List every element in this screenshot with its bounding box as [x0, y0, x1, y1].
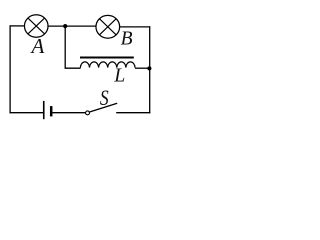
- wire: bottom right from frame to switch: [116, 112, 150, 114]
- node: junction dot on top wire: [63, 24, 67, 28]
- wire: battery to switch: [52, 112, 85, 114]
- svg-text:A: A: [30, 34, 45, 58]
- lamp B: [96, 15, 120, 38]
- wire: bottom left from left frame to battery: [10, 112, 44, 114]
- svg-text:B: B: [121, 29, 133, 50]
- wire: lamp B to right frame: [120, 26, 151, 28]
- wire: right frame vertical: [149, 26, 151, 113]
- wire: horizontal into coil left end: [65, 67, 81, 69]
- wire: vertical from junction down to inductor branch: [64, 26, 66, 68]
- battery long plate: [43, 101, 45, 119]
- inductor L coil: [80, 62, 135, 68]
- wire: left frame vertical: [9, 25, 11, 113]
- wire: coil right end to right frame: [135, 67, 150, 69]
- wire: top-left from left frame to lamp A: [10, 25, 25, 27]
- wire: lamp A to lamp B: [47, 25, 96, 27]
- inductor L core bar: [80, 57, 134, 59]
- svg-text:S: S: [100, 86, 109, 110]
- svg-text:L: L: [113, 64, 125, 86]
- lamp A: [24, 15, 48, 38]
- battery short plate: [50, 106, 53, 116]
- node: junction dot on right frame: [147, 66, 151, 70]
- switch S blade: [90, 103, 118, 112]
- switch S pivot: [86, 111, 90, 115]
